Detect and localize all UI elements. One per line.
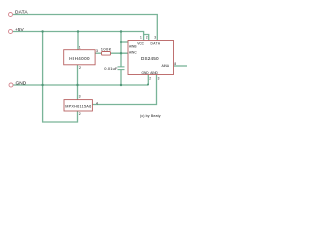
- svg-text:VCC: VCC: [137, 41, 144, 45]
- junction AINB stub: [120, 41, 122, 43]
- wire DS2450 AIND pin to MPX pin 4: [92, 75, 156, 105]
- pressure sensor U3 MPXH6115A6: [64, 100, 92, 111]
- junction GND rail / sensor ground: [76, 84, 78, 86]
- svg-text:3: 3: [158, 76, 160, 80]
- wire filter node vertical: [120, 32, 122, 86]
- svg-text:DATA: DATA: [151, 41, 161, 45]
- wire fork to second VCC pin: [144, 35, 149, 41]
- svg-text:0.01uF: 0.01uF: [104, 66, 118, 71]
- svg-text:2: 2: [79, 112, 81, 116]
- wire DATA rail from connector to DS2450 pin 3: [13, 15, 157, 41]
- junction +5V rail / HIH4000 pin 1 drop: [77, 30, 79, 32]
- wire +5V drop to HIH4000 pin 1: [77, 32, 79, 50]
- humidity sensor U1 HIH4000: [64, 50, 95, 65]
- svg-text:8: 8: [174, 62, 176, 66]
- ground GND connector: [9, 83, 13, 87]
- svg-text:3: 3: [79, 94, 81, 98]
- svg-text:GND: GND: [16, 80, 27, 86]
- svg-text:+5V: +5V: [15, 27, 24, 33]
- svg-text:AINB: AINB: [129, 44, 136, 48]
- junction GND rail / DS2450 GND pin: [147, 84, 149, 86]
- wire stub to DS2450 AINB pin: [121, 41, 128, 43]
- svg-text:(c) by Beaty: (c) by Beaty: [140, 114, 161, 118]
- junction GND rail / left drop: [41, 84, 43, 86]
- svg-text:2: 2: [149, 76, 151, 80]
- svg-text:MPXH6115A6: MPXH6115A6: [65, 104, 91, 108]
- wire HIH4000 pin 3 to resistor: [95, 52, 102, 54]
- node DATA connector: [9, 13, 13, 17]
- svg-text:2: 2: [79, 66, 81, 70]
- svg-text:AINA: AINA: [162, 64, 170, 68]
- svg-text:1: 1: [140, 35, 142, 39]
- svg-text:GND: GND: [142, 71, 150, 75]
- wire DS2450 AINA stub: [174, 65, 188, 67]
- svg-text:3: 3: [96, 49, 98, 53]
- junction GND rail / capacitor: [120, 84, 122, 86]
- svg-text:AIND: AIND: [150, 71, 158, 75]
- op-amp/ADC U2 DS2450 1-wire quad A/D: [128, 41, 174, 75]
- svg-text:3: 3: [154, 35, 156, 39]
- svg-text:HIH4000: HIH4000: [69, 56, 90, 61]
- wire DS2450 GND pin stub: [147, 75, 149, 85]
- wire GND rail to MPX pin 3: [77, 85, 79, 100]
- svg-text:1: 1: [79, 46, 81, 50]
- junction +5V rail / left drop: [41, 30, 43, 32]
- svg-text:DATA: DATA: [15, 10, 28, 16]
- svg-text:DS2450: DS2450: [141, 56, 159, 61]
- wire HIH4000 pin 2 to GND rail: [77, 65, 79, 85]
- junction +5V rail / filter node vertical: [120, 30, 122, 32]
- svg-text:4: 4: [96, 102, 98, 106]
- junction resistor output node: [120, 52, 122, 54]
- wire resistor to DS2450 AINC pin: [111, 52, 129, 54]
- svg-text:AINC: AINC: [129, 51, 137, 55]
- node +5V connector: [9, 30, 13, 34]
- resistor R1 100K: [102, 52, 111, 56]
- svg-text:100K: 100K: [101, 47, 112, 52]
- wire +5V rail to DS2450 VCC pin: [13, 32, 144, 41]
- wire +5V down left side to bottom rail to MPX pin 2: [43, 32, 78, 123]
- wire GND rail: [13, 84, 148, 86]
- svg-text:2: 2: [146, 35, 148, 39]
- capacitor C1 0.01uF: [118, 67, 125, 70]
